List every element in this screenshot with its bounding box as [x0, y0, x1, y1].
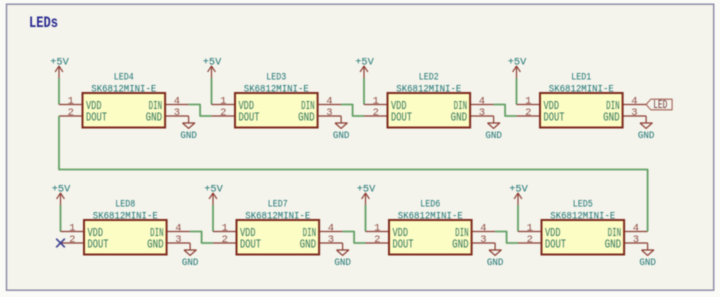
LED body LED5 SK6812MINI-E	[542, 220, 625, 255]
svg-text:2: 2	[222, 234, 228, 246]
svg-text:2: 2	[525, 107, 531, 119]
svg-text:LED3: LED3	[266, 73, 286, 84]
LED5 pin 3 GND stub	[624, 242, 648, 244]
global label LED	[646, 99, 672, 112]
LED7 pin 4 DIN stub	[319, 231, 343, 233]
svg-text:4: 4	[175, 223, 181, 235]
svg-text:1: 1	[374, 223, 380, 235]
LED body LED1 SK6812MINI-E	[540, 93, 623, 128]
LED8 pin 2 DOUT stub	[61, 242, 85, 244]
svg-text:DOUT: DOUT	[240, 238, 261, 252]
power symbol +5V for LED4	[50, 58, 69, 79]
svg-text:4: 4	[631, 96, 637, 108]
svg-text:DOUT: DOUT	[86, 111, 107, 125]
svg-text:4: 4	[479, 96, 485, 108]
svg-text:LED5: LED5	[573, 200, 593, 211]
svg-text:LED: LED	[653, 99, 667, 112]
LED2 pin 1 VDD stub	[364, 104, 388, 106]
svg-text:4: 4	[326, 96, 332, 108]
wire LED4 DIN to LED3 DOUT	[189, 105, 212, 117]
svg-text:GND: GND	[334, 258, 351, 269]
LED2 pin 3 GND stub	[470, 115, 494, 117]
LED7 pin 3 GND stub	[319, 242, 343, 244]
svg-text:LED2: LED2	[419, 73, 439, 84]
LED6 pin 2 DOUT stub	[366, 242, 390, 244]
wire +5V rail to LED8 VDD pin 1	[60, 205, 62, 232]
svg-text:4: 4	[480, 223, 486, 235]
LED2 pin 4 DIN stub	[470, 104, 494, 106]
wire LED2 DIN to LED1 DOUT	[494, 105, 517, 117]
power symbol +5V for LED1	[508, 58, 527, 79]
svg-text:SK6812MINI-E: SK6812MINI-E	[550, 211, 615, 222]
svg-text:1: 1	[68, 96, 74, 108]
svg-text:+5V: +5V	[203, 58, 222, 69]
svg-text:SK6812MINI-E: SK6812MINI-E	[91, 84, 156, 95]
wire +5V rail to LED7 VDD pin 1	[212, 205, 214, 232]
LED3 pin 1 VDD stub	[212, 104, 236, 106]
ground symbol at LED7 pin 3	[334, 243, 351, 269]
svg-text:LED8: LED8	[115, 200, 135, 211]
svg-text:1: 1	[525, 96, 531, 108]
svg-text:2: 2	[68, 107, 74, 119]
svg-text:3: 3	[479, 107, 485, 119]
svg-text:GND: GND	[180, 131, 197, 142]
svg-text:+5V: +5V	[52, 185, 71, 196]
LED body LED8 SK6812MINI-E	[84, 220, 167, 255]
LED3 pin 3 GND stub	[318, 115, 342, 117]
svg-text:4: 4	[328, 223, 334, 235]
LED6 pin 4 DIN stub	[472, 231, 496, 233]
svg-text:3: 3	[631, 107, 637, 119]
svg-text:LED7: LED7	[268, 200, 288, 211]
wire +5V rail to LED2 VDD pin 1	[363, 78, 365, 105]
power symbol +5V for LED2	[355, 58, 374, 79]
LED3 pin 2 DOUT stub	[212, 115, 236, 117]
ground symbol at LED6 pin 3	[487, 243, 504, 269]
svg-text:3: 3	[326, 107, 332, 119]
svg-text:DOUT: DOUT	[544, 111, 565, 125]
svg-text:3: 3	[633, 234, 639, 246]
wire LED3 DIN to LED2 DOUT	[341, 105, 364, 117]
LED4 pin 3 GND stub	[165, 115, 189, 117]
LED8 pin 1 VDD stub	[61, 231, 85, 233]
svg-text:GND: GND	[638, 131, 655, 142]
svg-text:GND: GND	[146, 111, 163, 125]
svg-text:DOUT: DOUT	[545, 238, 566, 252]
svg-text:+5V: +5V	[50, 58, 69, 69]
svg-text:GND: GND	[452, 238, 469, 252]
wire +5V rail to LED5 VDD pin 1	[517, 205, 519, 232]
svg-text:1: 1	[69, 223, 75, 235]
LED4 pin 1 VDD stub	[59, 104, 83, 106]
svg-text:GND: GND	[605, 238, 622, 252]
LED6 pin 3 GND stub	[472, 242, 496, 244]
svg-text:DOUT: DOUT	[88, 238, 109, 252]
LED body LED7 SK6812MINI-E	[237, 220, 320, 255]
svg-text:4: 4	[174, 96, 180, 108]
svg-text:GND: GND	[603, 111, 620, 125]
power symbol +5V for LED7	[204, 185, 223, 206]
ground symbol at LED1 pin 3	[638, 116, 655, 142]
LED8 pin 3 GND stub	[167, 242, 191, 244]
svg-text:LED6: LED6	[420, 200, 440, 211]
wire +5V rail to LED6 VDD pin 1	[365, 205, 367, 232]
svg-text:1: 1	[222, 223, 228, 235]
svg-text:+5V: +5V	[509, 185, 528, 196]
LED5 pin 4 DIN stub	[624, 231, 648, 233]
power symbol +5V for LED3	[203, 58, 222, 79]
svg-text:2: 2	[373, 107, 379, 119]
svg-text:3: 3	[174, 107, 180, 119]
svg-text:DOUT: DOUT	[239, 111, 260, 125]
svg-text:GND: GND	[639, 258, 656, 269]
svg-text:2: 2	[220, 107, 226, 119]
LED1 pin 3 GND stub	[623, 115, 647, 117]
LED body LED2 SK6812MINI-E	[388, 93, 471, 128]
svg-text:2: 2	[69, 234, 75, 246]
wire LED8 DIN to LED7 DOUT	[190, 232, 213, 244]
svg-text:GND: GND	[485, 131, 502, 142]
svg-text:+5V: +5V	[357, 185, 376, 196]
svg-text:SK6812MINI-E: SK6812MINI-E	[245, 211, 310, 222]
LED1 pin 2 DOUT stub	[517, 115, 541, 117]
LED5 pin 2 DOUT stub	[518, 242, 542, 244]
svg-text:4: 4	[633, 223, 639, 235]
LED7 pin 2 DOUT stub	[213, 242, 237, 244]
svg-text:1: 1	[220, 96, 226, 108]
svg-text:SK6812MINI-E: SK6812MINI-E	[398, 211, 463, 222]
svg-text:+5V: +5V	[508, 58, 527, 69]
svg-text:GND: GND	[298, 111, 315, 125]
ground symbol at LED5 pin 3	[639, 243, 656, 269]
LED6 pin 1 VDD stub	[366, 231, 390, 233]
svg-text:DOUT: DOUT	[391, 111, 412, 125]
LED body LED3 SK6812MINI-E	[235, 93, 318, 128]
ground symbol at LED8 pin 3	[182, 243, 199, 269]
svg-text:GND: GND	[182, 258, 199, 269]
no-connect flag on LED8 DOUT	[56, 239, 65, 248]
power symbol +5V for LED6	[357, 185, 376, 206]
svg-text:3: 3	[328, 234, 334, 246]
svg-text:LED4: LED4	[114, 73, 134, 84]
LED2 pin 2 DOUT stub	[364, 115, 388, 117]
wire +5V rail to LED1 VDD pin 1	[516, 78, 518, 105]
wire +5V rail to LED4 VDD pin 1	[58, 78, 60, 105]
LED7 pin 1 VDD stub	[213, 231, 237, 233]
LED1 pin 4 DIN stub	[623, 104, 647, 106]
svg-text:1: 1	[527, 223, 533, 235]
svg-text:GND: GND	[451, 111, 468, 125]
LED4 pin 2 DOUT stub	[59, 115, 83, 117]
svg-text:SK6812MINI-E: SK6812MINI-E	[93, 211, 158, 222]
svg-text:+5V: +5V	[355, 58, 374, 69]
svg-text:GND: GND	[333, 131, 350, 142]
power symbol +5V for LED5	[509, 185, 528, 206]
svg-text:LED1: LED1	[571, 73, 591, 84]
svg-text:GND: GND	[147, 238, 164, 252]
ground symbol at LED2 pin 3	[485, 116, 502, 142]
svg-text:SK6812MINI-E: SK6812MINI-E	[244, 84, 309, 95]
LED1 pin 1 VDD stub	[517, 104, 541, 106]
svg-text:+5V: +5V	[204, 185, 223, 196]
ground symbol at LED4 pin 3	[180, 116, 197, 142]
svg-text:GND: GND	[487, 258, 504, 269]
LED8 pin 4 DIN stub	[167, 231, 191, 233]
power symbol +5V for LED8	[52, 185, 71, 206]
svg-text:LEDs: LEDs	[29, 14, 58, 32]
LED body LED4 SK6812MINI-E	[83, 93, 166, 128]
wire LED7 DIN to LED6 DOUT	[343, 232, 366, 244]
svg-text:SK6812MINI-E: SK6812MINI-E	[396, 84, 461, 95]
ground symbol at LED3 pin 3	[333, 116, 350, 142]
wire +5V rail to LED3 VDD pin 1	[211, 78, 213, 105]
svg-text:DOUT: DOUT	[393, 238, 414, 252]
LED5 pin 1 VDD stub	[518, 231, 542, 233]
wire LED4 DOUT down across to LED5 DIN	[59, 116, 648, 232]
svg-text:3: 3	[175, 234, 181, 246]
svg-text:SK6812MINI-E: SK6812MINI-E	[549, 84, 614, 95]
svg-text:3: 3	[480, 234, 486, 246]
svg-text:1: 1	[373, 96, 379, 108]
wire LED6 DIN to LED5 DOUT	[495, 232, 518, 244]
svg-text:GND: GND	[300, 238, 317, 252]
svg-text:2: 2	[374, 234, 380, 246]
svg-text:2: 2	[527, 234, 533, 246]
LED body LED6 SK6812MINI-E	[389, 220, 472, 255]
LED3 pin 4 DIN stub	[318, 104, 342, 106]
LED4 pin 4 DIN stub	[165, 104, 189, 106]
